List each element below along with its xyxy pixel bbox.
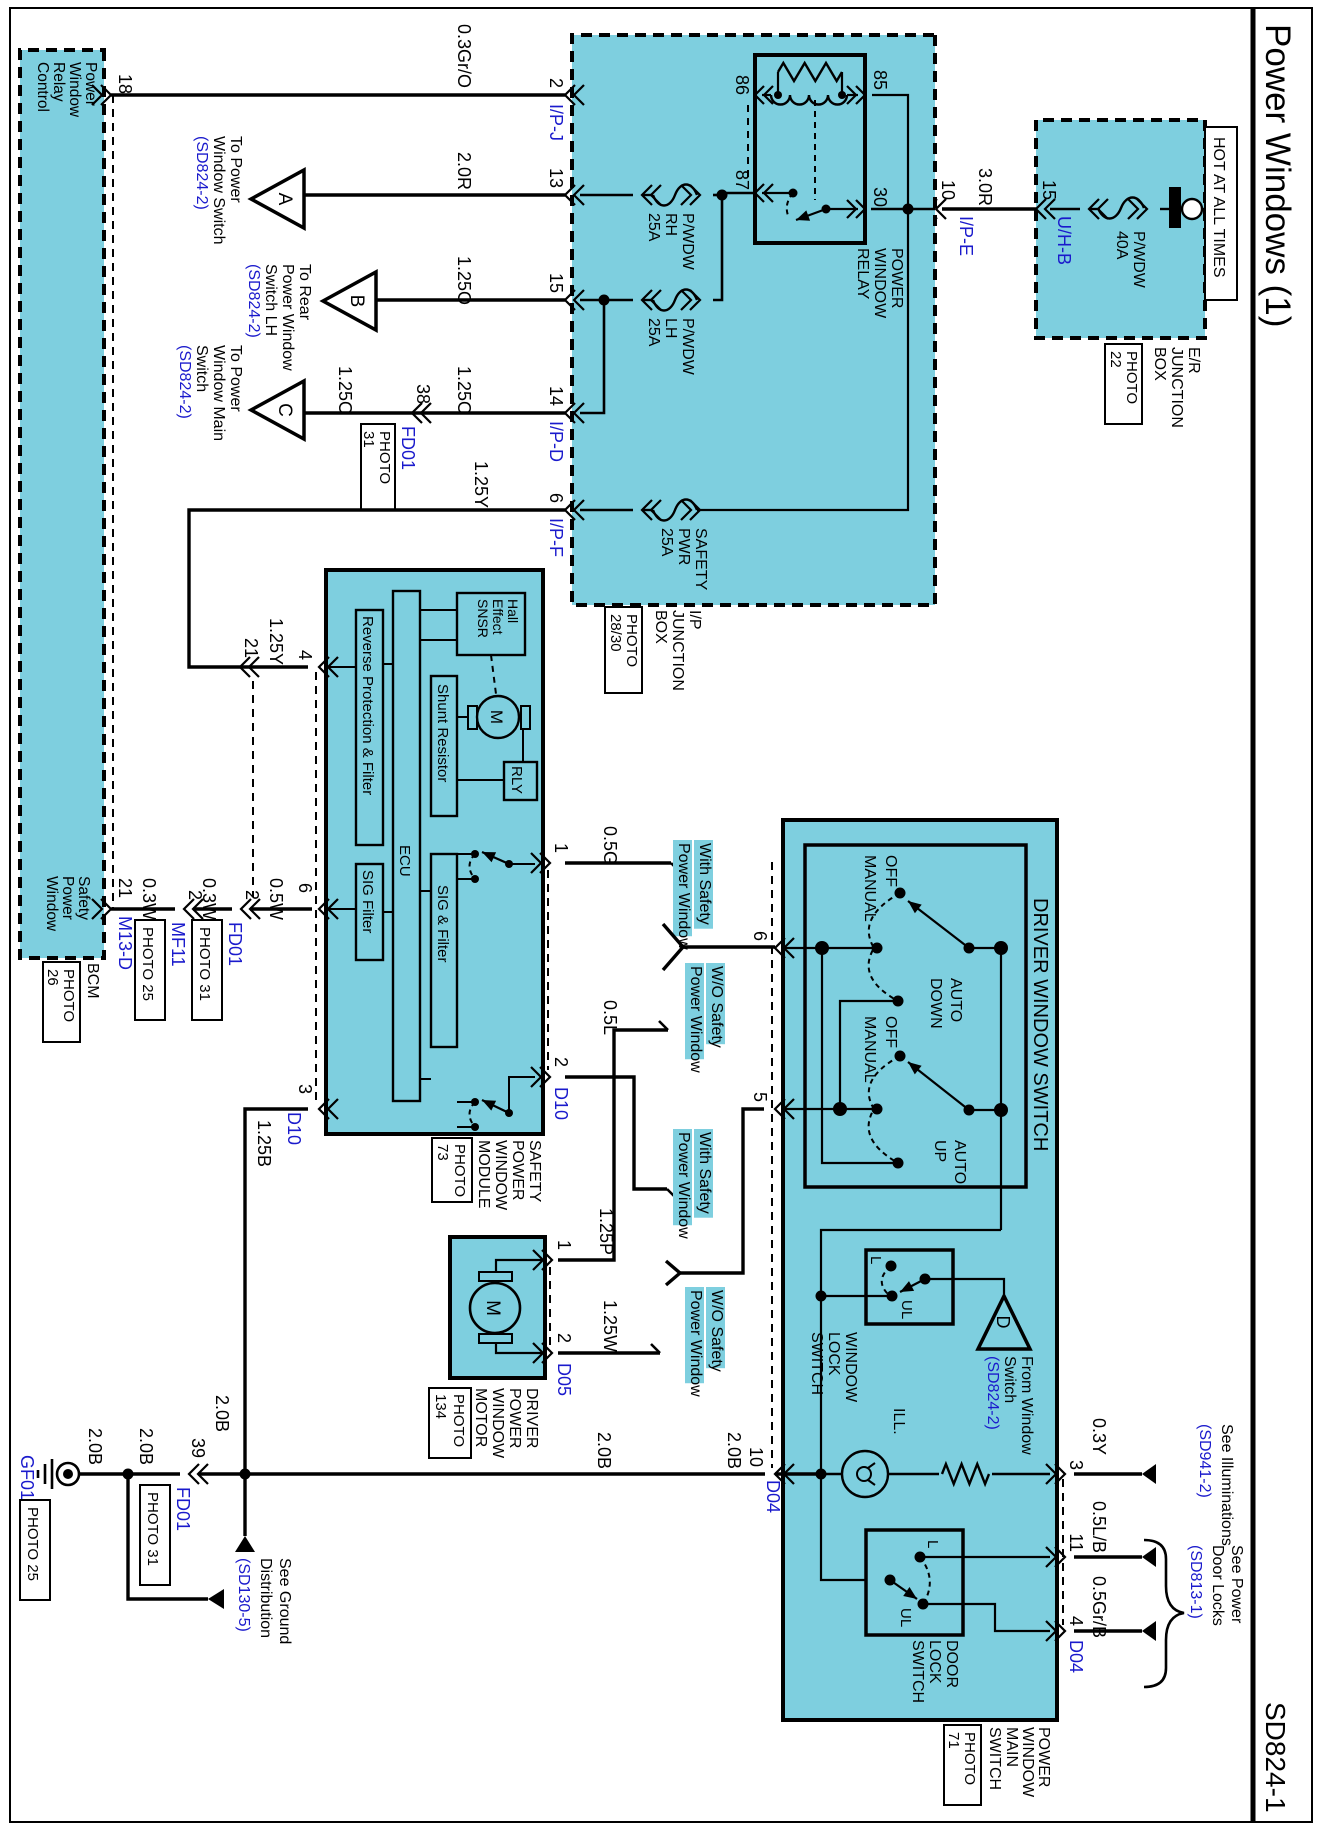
driver motor M	[470, 1272, 520, 1343]
svg-text:UL: UL	[897, 1608, 914, 1627]
fuse P/WDW RH 25A	[642, 185, 700, 271]
svg-text:(SD130-5): (SD130-5)	[235, 1558, 252, 1632]
driver switch down labels	[861, 855, 964, 1029]
node LH to pin 14 branch	[580, 295, 610, 414]
wire fuse RH to pin 13	[580, 194, 633, 197]
svg-text:2.0B: 2.0B	[724, 1432, 744, 1469]
svg-text:UL: UL	[898, 1300, 915, 1319]
svg-text:See Illuminations: See Illuminations	[1218, 1424, 1235, 1546]
svg-text:L: L	[867, 1256, 884, 1264]
svg-text:LOCK: LOCK	[825, 1332, 842, 1376]
svg-text:SWITCH: SWITCH	[909, 1640, 926, 1703]
svg-text:PHOTO: PHOTO	[376, 431, 393, 484]
svg-text:1.25O: 1.25O	[454, 366, 474, 415]
svg-text:15: 15	[1039, 180, 1059, 200]
wire w/o safety to motor pin 1	[558, 1021, 668, 1260]
svg-text:D10: D10	[284, 1112, 304, 1145]
svg-text:From Window: From Window	[1018, 1356, 1035, 1455]
I/P junction box (dashed)	[572, 35, 935, 605]
svg-text:WINDOW: WINDOW	[842, 1332, 859, 1403]
MF11 photo 25 box	[135, 920, 165, 1020]
wire 2.0B lower	[80, 1395, 232, 1474]
svg-text:31: 31	[360, 431, 377, 448]
svg-text:Shunt Resistor: Shunt Resistor	[434, 684, 451, 782]
svg-text:71: 71	[945, 1732, 962, 1749]
svg-text:1.25P: 1.25P	[596, 1208, 616, 1255]
svg-text:With Safety: With Safety	[696, 843, 713, 925]
svg-text:B: B	[346, 295, 367, 308]
door lock UL contact	[897, 1599, 929, 1628]
relay pin 85	[847, 70, 890, 104]
svg-text:1: 1	[554, 1240, 574, 1250]
pin 11	[1046, 1533, 1086, 1567]
svg-text:(SD824-2): (SD824-2)	[176, 345, 193, 419]
svg-text:0.3W: 0.3W	[199, 878, 219, 920]
ECU box	[393, 591, 420, 1101]
svg-text:M: M	[482, 1300, 503, 1316]
svg-text:MF11: MF11	[168, 922, 188, 967]
svg-text:Control: Control	[34, 62, 51, 112]
svg-text:BOX: BOX	[652, 610, 669, 644]
svg-text:85: 85	[870, 70, 890, 90]
svg-text:DRIVER WINDOW SWITCH: DRIVER WINDOW SWITCH	[1029, 898, 1051, 1151]
svg-text:1.25O: 1.25O	[335, 366, 355, 415]
label to power window switch	[193, 136, 244, 244]
svg-text:Distribution: Distribution	[257, 1558, 274, 1638]
svg-text:6: 6	[750, 931, 770, 941]
node pin5 rail junction	[833, 1102, 847, 1116]
svg-text:WINDOW: WINDOW	[489, 1388, 506, 1459]
svg-text:Power Window: Power Window	[687, 966, 704, 1073]
svg-text:SAFETY: SAFETY	[526, 1140, 543, 1203]
svg-text:RH: RH	[662, 213, 679, 236]
I/P junction box label	[652, 610, 703, 691]
hall sensor dashed link	[491, 655, 496, 694]
svg-text:(SD813-1): (SD813-1)	[1187, 1545, 1204, 1619]
svg-text:To Power: To Power	[227, 136, 244, 203]
svg-text:10: 10	[938, 180, 958, 200]
node power rail branch	[903, 204, 914, 215]
svg-text:(SD941-2): (SD941-2)	[1196, 1424, 1213, 1498]
motor label	[472, 1388, 540, 1459]
svg-text:MOTOR: MOTOR	[472, 1388, 489, 1447]
svg-text:28/30: 28/30	[607, 614, 624, 652]
label see ground distribution	[235, 1558, 293, 1644]
module switch 2	[457, 1077, 535, 1131]
window lock switch label	[808, 1332, 859, 1403]
wire safety fuse to pin 6	[580, 509, 633, 512]
svg-text:MANUAL: MANUAL	[861, 855, 878, 922]
wire 2.0R pin13 to triangle A	[304, 152, 565, 195]
svg-text:26: 26	[44, 969, 61, 986]
relay pin 87	[732, 170, 773, 202]
svg-text:JUNCTION: JUNCTION	[1168, 347, 1185, 428]
svg-text:PHOTO 31: PHOTO 31	[196, 927, 213, 1001]
svg-text:M: M	[487, 710, 506, 724]
svg-text:6: 6	[546, 493, 566, 503]
label from window switch	[984, 1356, 1035, 1455]
relay pin 86	[732, 75, 773, 104]
module motor M	[468, 696, 530, 738]
safety power window module box	[326, 570, 543, 1134]
illumination lamp ILL	[842, 1408, 907, 1497]
svg-text:2: 2	[551, 1057, 571, 1067]
svg-text:DOWN: DOWN	[927, 978, 944, 1029]
wire 1.25O pin14 to triangle C	[304, 366, 565, 415]
wire door lock UL to pin 4	[923, 1604, 1050, 1631]
svg-text:0.3W: 0.3W	[139, 878, 159, 920]
motor D05 dashed face	[549, 1267, 551, 1346]
svg-text:PHOTO: PHOTO	[961, 1732, 978, 1785]
wire pin3 rail	[775, 1469, 1050, 1480]
driver window switch label	[1029, 898, 1051, 1151]
label to power window main switch	[176, 345, 244, 441]
svg-text:SIG Filter: SIG Filter	[359, 870, 376, 933]
svg-text:D: D	[993, 1316, 1013, 1329]
svg-text:13: 13	[546, 168, 566, 188]
svg-text:Safety: Safety	[75, 876, 92, 920]
svg-text:D04: D04	[1066, 1640, 1086, 1673]
driver switch down manual contact	[872, 943, 883, 954]
svg-text:14: 14	[546, 386, 566, 406]
svg-text:(SD824-2): (SD824-2)	[245, 264, 262, 338]
driver switch pin5 rail	[783, 1108, 877, 1110]
svg-text:BCM: BCM	[84, 963, 101, 999]
svg-text:0.5G: 0.5G	[600, 826, 620, 865]
pin 3 D04	[1046, 1460, 1086, 1484]
svg-text:Switch LH: Switch LH	[262, 264, 279, 336]
svg-text:Hall: Hall	[505, 599, 521, 623]
option label w/o safety power window 4	[685, 1287, 725, 1397]
option label with safety power window 3	[673, 1129, 713, 1239]
svg-text:0.5L: 0.5L	[600, 1000, 620, 1035]
triangle C to power window main switch	[251, 381, 304, 439]
svg-text:BOX: BOX	[1151, 347, 1168, 381]
wire 1.25Y pin6 to module pin 4	[189, 461, 565, 667]
svg-text:22: 22	[1107, 351, 1124, 368]
svg-text:2.0R: 2.0R	[454, 152, 474, 190]
svg-text:Power: Power	[59, 876, 76, 920]
svg-text:Window Switch: Window Switch	[210, 136, 227, 244]
svg-text:I/P-J: I/P-J	[546, 104, 566, 141]
svg-text:Window: Window	[43, 876, 60, 932]
brace see power door locks	[1144, 1540, 1184, 1687]
svg-text:OFF: OFF	[882, 1016, 899, 1048]
D04 dashed face right	[1062, 1479, 1064, 1625]
node relay 87 to fuses	[717, 190, 756, 201]
wire power rail to relay pin 30	[871, 208, 935, 211]
node ground branch 1	[240, 1469, 251, 1480]
relay pin 30	[847, 187, 890, 218]
dashed connector link FD01	[252, 681, 254, 897]
module D10 dashed face pins 1-2	[547, 870, 549, 1070]
svg-text:PHOTO: PHOTO	[451, 1144, 468, 1197]
svg-text:POWER: POWER	[509, 1140, 526, 1200]
svg-text:39: 39	[188, 1438, 208, 1458]
svg-text:2.0B: 2.0B	[212, 1395, 232, 1432]
svg-text:73: 73	[434, 1144, 451, 1161]
triangle A to power window switch	[251, 170, 304, 228]
connector 2 FD01	[225, 890, 262, 966]
svg-text:MAIN: MAIN	[1003, 1727, 1020, 1767]
fuse P/WDW LH 25A	[642, 290, 700, 376]
svg-text:I/P: I/P	[686, 610, 703, 630]
svg-text:HOT AT ALL TIMES: HOT AT ALL TIMES	[1210, 137, 1227, 278]
svg-text:UP: UP	[931, 1140, 948, 1162]
relay contact	[762, 189, 858, 221]
svg-text:SD824-1: SD824-1	[1260, 1702, 1291, 1813]
svg-text:GF01: GF01	[17, 1455, 37, 1500]
module pin 4	[295, 650, 338, 677]
svg-text:21: 21	[115, 878, 135, 898]
label to rear power window switch LH	[245, 264, 313, 371]
wire fuse LH to pin 15	[580, 299, 633, 302]
svg-text:Power Window: Power Window	[279, 264, 296, 371]
main switch pin 5	[750, 1092, 794, 1119]
E/R photo 22 box	[1105, 344, 1142, 424]
door lock arc	[920, 1557, 930, 1604]
driver window switch inner box	[805, 845, 1026, 1187]
svg-text:0.5L/B: 0.5L/B	[1089, 1501, 1109, 1553]
svg-text:FD01: FD01	[398, 426, 418, 470]
BCM box Power Window Relay Control (dashed)	[20, 50, 104, 958]
svg-text:11: 11	[1066, 1533, 1086, 1552]
wire 0.5G module pin1	[565, 826, 680, 872]
module D10 dashed connector face	[315, 672, 317, 1104]
wire window lock to rail	[816, 1291, 893, 1302]
svg-text:Effect: Effect	[490, 599, 506, 635]
svg-text:134: 134	[432, 1394, 449, 1419]
svg-text:Power Window: Power Window	[675, 843, 692, 950]
wire window lock to triangle D	[925, 1279, 1004, 1294]
BCM pin 18	[92, 74, 135, 105]
svg-text:AUTO: AUTO	[951, 1140, 968, 1184]
hall effect sensor box	[457, 593, 525, 655]
pin 13	[546, 168, 584, 205]
svg-text:1.25O: 1.25O	[454, 256, 474, 305]
svg-text:ECU: ECU	[396, 845, 413, 877]
driver switch up auto contact	[893, 1158, 904, 1169]
svg-text:2: 2	[546, 78, 566, 88]
reverse protection and filter box	[356, 610, 383, 845]
wire 2.0B pin10 to ground	[198, 1432, 765, 1474]
svg-text:POWER: POWER	[1035, 1727, 1052, 1787]
svg-text:1.25B: 1.25B	[254, 1120, 274, 1167]
svg-text:C: C	[274, 403, 295, 417]
battery feed	[1160, 187, 1205, 228]
svg-text:0.3Gr/O: 0.3Gr/O	[454, 24, 474, 88]
svg-text:WINDOW: WINDOW	[871, 248, 888, 319]
wire 1.25W w/o safety to motor pin 2	[558, 1300, 660, 1353]
svg-text:PHOTO: PHOTO	[60, 969, 77, 1022]
svg-text:RLY: RLY	[508, 766, 525, 794]
svg-text:ILL.: ILL.	[890, 1408, 907, 1435]
svg-text:25A: 25A	[658, 528, 675, 557]
BCM photo 26 box	[43, 962, 80, 1042]
node ground branch 2	[123, 1469, 134, 1480]
E/R junction box label	[1151, 347, 1202, 428]
svg-text:MANUAL: MANUAL	[861, 1016, 878, 1083]
svg-text:86: 86	[732, 75, 752, 95]
relay resistor	[774, 63, 846, 99]
svg-text:WINDOW: WINDOW	[492, 1140, 509, 1211]
svg-text:D05: D05	[554, 1363, 574, 1396]
wire branch to LH fuse	[713, 195, 722, 300]
wire 0.3Y see illuminations	[1074, 1418, 1156, 1484]
svg-text:Window Main: Window Main	[210, 345, 227, 441]
module label	[475, 1140, 543, 1211]
see ground distribution arrow 2	[128, 1474, 224, 1609]
option label with safety power window 1	[673, 840, 713, 950]
SIG and filter box	[431, 854, 457, 1047]
svg-text:SWITCH: SWITCH	[808, 1332, 825, 1395]
svg-text:PWR: PWR	[675, 528, 692, 565]
svg-text:1.25Y: 1.25Y	[266, 618, 286, 665]
svg-text:WINDOW: WINDOW	[1019, 1727, 1036, 1798]
wire 0.3Gr/O pin2 to BCM 18	[111, 24, 565, 95]
pin 4 D04	[1046, 1616, 1086, 1673]
motor internal wires	[496, 1260, 545, 1353]
SIG filter box	[356, 864, 383, 960]
main switch pin 6	[750, 931, 794, 958]
window lock common	[887, 1274, 931, 1302]
door lock switch label	[909, 1640, 960, 1703]
svg-text:21: 21	[241, 638, 261, 658]
svg-text:A: A	[274, 193, 295, 206]
pin 14 I/P-D	[546, 386, 584, 462]
svg-text:PHOTO: PHOTO	[623, 614, 640, 667]
node pin6 rail junction	[815, 941, 829, 955]
svg-text:3: 3	[1066, 1460, 1086, 1470]
svg-text:SAFETY: SAFETY	[692, 528, 709, 591]
door lock switch box	[866, 1530, 963, 1635]
svg-text:PHOTO 31: PHOTO 31	[144, 1492, 161, 1566]
svg-text:4: 4	[1066, 1616, 1086, 1626]
module pin 1	[531, 843, 571, 873]
svg-text:Switch: Switch	[1001, 1356, 1018, 1403]
svg-text:RELAY: RELAY	[854, 248, 871, 300]
svg-text:L: L	[924, 1540, 941, 1548]
svg-text:3.0R: 3.0R	[975, 168, 995, 206]
svg-text:DOOR: DOOR	[943, 1640, 960, 1688]
svg-text:2: 2	[554, 1333, 574, 1343]
motor photo 134 box	[429, 1388, 471, 1458]
driver switch up arm	[908, 1062, 975, 1116]
svg-text:1: 1	[551, 843, 571, 853]
svg-text:1.25Y: 1.25Y	[471, 461, 491, 508]
power window main switch box	[783, 820, 1057, 1720]
wire 0.5Gr/B	[1074, 1576, 1156, 1641]
svg-text:Power Window: Power Window	[675, 1132, 692, 1239]
BCM dashed connector face M13-D	[112, 95, 114, 909]
driver switch up labels	[861, 1016, 968, 1184]
svg-text:Door Locks: Door Locks	[1209, 1545, 1226, 1626]
door lock common	[885, 1575, 918, 1600]
svg-text:To Rear: To Rear	[296, 264, 313, 321]
svg-text:P/WDW: P/WDW	[679, 213, 696, 271]
driver switch common rail	[821, 941, 1008, 1580]
svg-text:I/P-F: I/P-F	[546, 518, 566, 557]
relay label	[854, 248, 905, 319]
svg-text:W/O Safety: W/O Safety	[708, 1290, 725, 1372]
wire 0.5L/B see power door locks	[1074, 1501, 1156, 1567]
main switch D04 dashed face	[771, 862, 773, 1468]
svg-text:PHOTO 25: PHOTO 25	[139, 927, 156, 1001]
relay coil	[762, 95, 858, 105]
module photo 73 box	[432, 1138, 472, 1202]
module internal stubs	[326, 610, 457, 1079]
svg-text:25A: 25A	[645, 318, 662, 347]
driver switch up common link	[969, 1103, 1008, 1117]
svg-text:0.5W: 0.5W	[266, 878, 286, 920]
shunt resistor box	[431, 676, 457, 816]
driver power window motor box	[450, 1237, 545, 1378]
svg-text:JUNCTION: JUNCTION	[669, 610, 686, 691]
main switch photo 71 box	[944, 1725, 981, 1805]
connector 38 FD01 on wire 1.25O	[398, 384, 433, 470]
main switch pin 10 D04	[746, 1447, 794, 1513]
label see illuminations	[1196, 1424, 1235, 1546]
svg-text:Power Windows (1): Power Windows (1)	[1258, 24, 1297, 327]
svg-text:(SD824-2): (SD824-2)	[984, 1356, 1001, 1430]
window lock arc	[882, 1266, 891, 1296]
wire 1.25O lower	[335, 366, 355, 415]
pin 15 lower	[546, 273, 584, 310]
module pin 6	[295, 883, 338, 919]
svg-text:0.5Gr/B: 0.5Gr/B	[1089, 1576, 1109, 1638]
fuse P/WDW 40A	[1089, 198, 1147, 289]
BCM pin 21 M13-D	[92, 878, 135, 970]
svg-text:POWER: POWER	[506, 1388, 523, 1448]
wire door lock L to pin 11	[920, 1556, 1050, 1558]
svg-text:LOCK: LOCK	[926, 1640, 943, 1684]
svg-text:M13-D: M13-D	[115, 916, 135, 970]
driver switch down off contact	[895, 888, 906, 899]
svg-text:P/WDW: P/WDW	[679, 318, 696, 376]
svg-text:D10: D10	[551, 1087, 571, 1120]
title Power Windows (1)	[1258, 24, 1297, 327]
svg-text:2.0B: 2.0B	[85, 1428, 105, 1465]
I/P photo 28/30 box	[605, 607, 642, 693]
svg-text:(SD824-2): (SD824-2)	[193, 136, 210, 210]
svg-text:SWITCH: SWITCH	[986, 1727, 1003, 1790]
pin 10 I/P-E	[927, 180, 976, 256]
window lock L contact	[867, 1256, 897, 1272]
svg-text:38: 38	[413, 384, 433, 404]
svg-text:18: 18	[115, 74, 135, 94]
svg-text:2: 2	[242, 890, 262, 900]
svg-text:W/O Safety: W/O Safety	[708, 966, 725, 1048]
sheet number SD824-1	[1260, 1702, 1291, 1813]
connector 21 on wire 1.25Y	[240, 638, 261, 677]
svg-text:PHOTO 25: PHOTO 25	[24, 1507, 41, 1581]
svg-text:LH: LH	[662, 318, 679, 338]
svg-text:I/P-D: I/P-D	[546, 421, 566, 462]
wire 1.25O pin15 to triangle B	[377, 256, 565, 305]
relay box U1 POWER WINDOW RELAY	[755, 55, 865, 243]
wire 0.3W MF11 to FD01	[193, 878, 232, 920]
fuse SAFETY PWR 25A	[642, 500, 720, 591]
svg-text:FD01: FD01	[225, 922, 245, 966]
svg-text:P/WDW: P/WDW	[1130, 231, 1147, 289]
driver switch down arc	[869, 893, 900, 1001]
HOT AT ALL TIMES label box	[1205, 127, 1237, 300]
svg-text:25A: 25A	[645, 213, 662, 242]
wire 0.5L module pin2	[565, 1000, 676, 1198]
svg-text:With Safety: With Safety	[696, 1132, 713, 1214]
svg-text:1.25W: 1.25W	[600, 1300, 620, 1352]
motor pin 2 D05	[533, 1333, 574, 1396]
